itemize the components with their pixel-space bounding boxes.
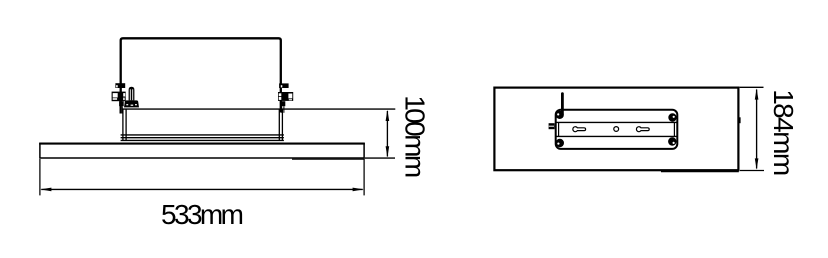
mounting plate bar bottom line: [556, 135, 678, 137]
side view housing rectangle: [494, 88, 738, 171]
keyhole slot right: [636, 127, 649, 132]
plate corner screw bottom-right: [668, 137, 676, 145]
driver box right wall (double line): [278, 109, 280, 141]
184mm dimension line with arrows: [755, 88, 759, 169]
antenna post: [561, 94, 564, 114]
left cable tab: [549, 123, 555, 129]
533mm left extension line: [39, 159, 41, 195]
mounting bracket yoke: [121, 38, 281, 113]
left pivot knob: [112, 92, 126, 102]
side view right edge nub: [739, 117, 741, 123]
right pivot knob: [278, 92, 293, 101]
right bracket arm foot: [281, 101, 286, 113]
svg-text:533mm: 533mm: [161, 199, 243, 230]
right pivot nut: [279, 83, 289, 88]
center hole: [614, 127, 619, 132]
plate corner screw bottom-left: [556, 139, 564, 147]
heatsink fin lines: [121, 134, 284, 136]
533mm dimension line with arrows: [40, 188, 364, 192]
plate bar left end cap: [558, 122, 560, 136]
svg-text:184mm: 184mm: [768, 89, 799, 175]
driver box top edge + 100mm top extension line: [122, 108, 395, 110]
driver box left wall (double line): [122, 109, 124, 141]
mounting plate rounded rect: [556, 110, 678, 149]
plate corner screw top-left: [556, 111, 564, 119]
100mm bottom extension line: [365, 157, 395, 159]
plate corner screw top-right: [668, 113, 676, 121]
photocell gland stem: [129, 87, 135, 101]
mounting plate bar top line: [556, 121, 678, 123]
left bracket arm foot: [119, 101, 124, 113]
100mm dimension line with arrows: [386, 110, 390, 158]
left pivot nut: [115, 83, 125, 88]
side view bottom doubled segment: [661, 171, 739, 173]
184mm top extension line: [740, 86, 764, 88]
panel bottom edge doubled segment: [292, 158, 365, 160]
533mm right extension line: [363, 159, 365, 195]
keyhole slot left: [573, 127, 586, 132]
lamp panel body: [40, 144, 364, 158]
184mm bottom extension line: [740, 170, 764, 172]
svg-text:100mm: 100mm: [400, 95, 431, 177]
plate bar right end cap: [673, 122, 675, 136]
photocell gland base: [124, 100, 139, 107]
